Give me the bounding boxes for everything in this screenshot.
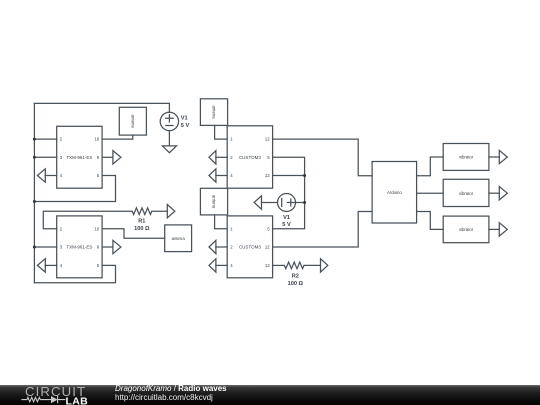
- svg-text:9: 9: [97, 245, 100, 250]
- svg-text:5 V: 5 V: [181, 123, 190, 129]
- wire U2 pin10 to antenna A5: [102, 229, 165, 239]
- svg-text:Arduino: Arduino: [387, 190, 402, 195]
- flag left of V1: [254, 196, 261, 209]
- junction node rail pin2: [33, 138, 36, 141]
- antenna box A3: [200, 99, 227, 126]
- svg-text:12: 12: [265, 137, 270, 142]
- svg-text:13: 13: [265, 173, 270, 178]
- svg-text:5: 5: [97, 173, 100, 178]
- wire U3 pin5 to vertical net: [273, 157, 305, 175]
- chip U1 TXM-961-ES top-left: [57, 126, 102, 188]
- logo diode: [51, 396, 58, 403]
- svg-text:vibrator: vibrator: [459, 191, 474, 196]
- resistor R2: [284, 262, 304, 269]
- junction node net V1 plus: [303, 201, 306, 204]
- resistor R1: [132, 208, 152, 215]
- antenna box A5: [165, 225, 192, 252]
- wire V1 minus to ground: [168, 131, 171, 146]
- wire U2 pin2 to R1: [43, 211, 132, 229]
- wire U2 pin3 to rail: [34, 246, 56, 249]
- wire U3 pin13: [273, 174, 305, 177]
- wire top net from rail to V1 plus: [34, 103, 169, 112]
- svg-text:5: 5: [267, 226, 270, 231]
- svg-text:5: 5: [267, 155, 270, 160]
- flag U4 pin4: [216, 264, 227, 267]
- block vibrator3: [443, 216, 489, 243]
- junction node net pin13: [303, 174, 306, 177]
- wire U2 pin5 return to rail bottom: [34, 265, 115, 282]
- svg-text:1: 1: [230, 226, 233, 231]
- voltage source V1 middle circle: [278, 194, 296, 212]
- svg-text:4: 4: [230, 263, 233, 268]
- wire U1 pin2 to rail: [34, 138, 56, 141]
- svg-text:R2: R2: [292, 274, 299, 280]
- flag vibrator2: [489, 192, 499, 195]
- svg-text:2: 2: [230, 245, 233, 250]
- flag U3 pin4: [216, 174, 227, 177]
- wire A3 to U3 pin1: [215, 125, 228, 139]
- svg-text:100 Ω: 100 Ω: [288, 281, 304, 287]
- svg-text:V1: V1: [181, 116, 188, 122]
- wire V1 minus to flag: [262, 201, 278, 204]
- junction node rail pin3: [33, 156, 36, 159]
- svg-text:12: 12: [265, 245, 270, 250]
- voltage source V1 left circle: [160, 112, 178, 130]
- svg-text:2: 2: [60, 226, 63, 231]
- flag U1 pin9: [102, 156, 113, 159]
- wire V1 plus to vertical net: [296, 201, 305, 204]
- wire Arduino to vibrator3: [417, 212, 444, 230]
- svg-text:4: 4: [230, 173, 233, 178]
- svg-text:LAB: LAB: [66, 395, 89, 405]
- svg-text:5: 5: [97, 263, 100, 268]
- svg-text:5 V: 5 V: [282, 222, 291, 228]
- svg-text:2: 2: [60, 137, 63, 142]
- svg-text:CUSTOM3: CUSTOM3: [239, 245, 261, 250]
- wire R2 to flag: [304, 264, 321, 267]
- footer title: [115, 385, 227, 402]
- wire U1 pin5 return to rail: [34, 176, 115, 202]
- svg-text:1: 1: [230, 137, 233, 142]
- flag U3 pin2: [216, 156, 227, 159]
- flag U2 pin9: [102, 246, 113, 249]
- CircuitLab logo: [0, 385, 110, 405]
- junction node rail pin5 return: [33, 200, 36, 203]
- svg-text:3: 3: [60, 155, 63, 160]
- flag right of R2: [321, 259, 328, 272]
- flag right of R1: [167, 205, 175, 218]
- wire U3 pin12 to Arduino left top: [273, 139, 373, 176]
- svg-text:vibrator: vibrator: [459, 155, 474, 160]
- footer url: [115, 393, 213, 402]
- junction node rail U2 pin3: [33, 246, 36, 249]
- flag vibrator3: [489, 228, 499, 231]
- wire U1 pin3 to rail: [34, 156, 56, 159]
- wire U4 pin13 to R2: [273, 264, 285, 267]
- antenna box A1: [119, 107, 146, 135]
- wire U4 pin12 to Arduino left bottom: [273, 212, 373, 248]
- svg-text:antena: antena: [172, 236, 186, 241]
- svg-text:10: 10: [94, 137, 99, 142]
- block vibrator1: [443, 144, 489, 171]
- footer bar: [0, 385, 540, 405]
- wire Arduino to vibrator1: [417, 157, 444, 176]
- svg-text:CUSTOM3: CUSTOM3: [239, 155, 261, 160]
- svg-text:10: 10: [94, 226, 99, 231]
- wire U1 pin10 to antenna A1: [102, 135, 133, 139]
- wire R1 to flag: [152, 210, 168, 213]
- wire Arduino to vibrator2: [417, 192, 444, 195]
- antenna box A4: [200, 188, 227, 215]
- svg-text:antena: antena: [130, 115, 135, 129]
- svg-text:R1: R1: [138, 219, 145, 225]
- svg-text:9: 9: [97, 155, 100, 160]
- svg-text:100 Ω: 100 Ω: [134, 226, 150, 232]
- chip U3 CUSTOM3 top-middle: [227, 126, 272, 188]
- wire net V+ rail vertical: [33, 103, 36, 282]
- svg-text:2: 2: [230, 155, 233, 160]
- svg-text:vibrator: vibrator: [459, 227, 474, 232]
- block vibrator2: [443, 179, 489, 206]
- svg-text:4: 4: [60, 173, 63, 178]
- svg-text:TXM-961-ES: TXM-961-ES: [66, 245, 92, 250]
- chip U2 TXM-961-ES bottom-left: [57, 216, 102, 278]
- svg-text:V1: V1: [283, 215, 290, 221]
- block Arduino: [372, 162, 417, 224]
- flag U2 pin4: [45, 264, 56, 267]
- wire vertical net down to U4 pin5: [273, 176, 305, 229]
- svg-text:antena: antena: [212, 106, 217, 120]
- wire A4 to U4 pin1: [215, 215, 228, 229]
- svg-text:3: 3: [60, 245, 63, 250]
- flag vibrator1: [489, 156, 499, 159]
- svg-text:4: 4: [60, 263, 63, 268]
- flag U1 pin4: [45, 174, 56, 177]
- chip U4 CUSTOM3 bottom-middle: [227, 216, 272, 278]
- flag U4 pin2: [216, 246, 227, 249]
- svg-text:antena: antena: [212, 195, 217, 209]
- svg-text:TXM-961-ES: TXM-961-ES: [66, 155, 92, 160]
- svg-text:13: 13: [265, 263, 270, 268]
- ground symbol: [162, 146, 176, 153]
